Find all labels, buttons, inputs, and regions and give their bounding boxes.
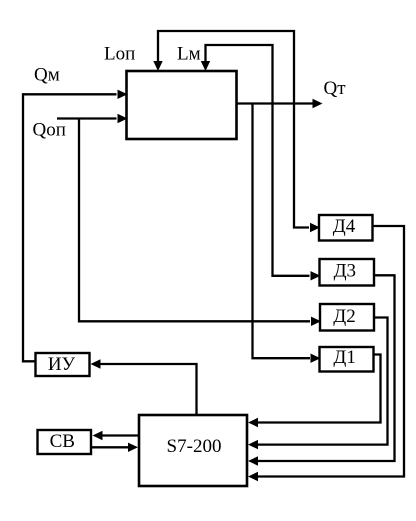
arrowhead Д3 line into S7-200 [248,456,258,465]
svg-text:СВ: СВ [50,431,75,452]
arrowhead into СВ [93,431,103,440]
wire S7-200 to СВ [101,434,139,436]
arrowhead Qоп into process block [118,114,128,123]
wire Qт tap down to Д1 [253,104,311,359]
wire Lоп: top feed into process block and tap to Д4 [158,31,309,228]
wire Qм: from ИУ up and into process block [23,94,117,361]
arrowhead Lм into process block [201,61,210,71]
svg-text:Д3: Д3 [334,261,356,282]
arrowhead Qм into process block [118,90,128,99]
wire Д2 output to S7-200 [257,318,388,445]
block ИУ [36,353,90,376]
process block (main object) [127,71,237,139]
block S7-200 [139,415,247,486]
arrowhead into ИУ [91,359,101,368]
block Д3 [320,259,375,286]
block Д4 [319,215,373,241]
wire Д3 output to S7-200 [257,275,395,461]
svg-text:Д2: Д2 [333,306,355,327]
svg-text:Qм: Qм [34,65,60,86]
arrowhead into Д2 [311,317,321,326]
svg-text:ИУ: ИУ [48,354,76,375]
svg-text:Д4: Д4 [333,216,356,237]
block Д1 [320,347,374,372]
svg-text:Qоп: Qоп [33,120,66,141]
arrowhead Qт output [313,99,323,108]
arrowhead СВ line into S7-200 [128,443,138,452]
wire Д1 output to S7-200 [257,355,381,423]
svg-text:Lм: Lм [177,44,201,65]
wire Д4 output to S7-200 [257,226,405,477]
wire Lм: top feed into process block and tap to Д3 [206,45,310,276]
wire S7-200 to ИУ [99,364,197,415]
wire Qоп branch down to Д2 [79,119,310,322]
arrowhead Д2 line into S7-200 [248,440,258,449]
svg-text:Qт: Qт [324,78,347,99]
arrowhead into Д1 [311,354,321,363]
svg-text:Lоп: Lоп [104,44,135,65]
arrowhead into Д3 [311,271,321,280]
wire СВ to S7-200 [91,446,130,448]
arrowhead Д1 line into S7-200 [248,418,258,427]
svg-text:S7-200: S7-200 [167,436,222,457]
arrowhead into Д4 [310,223,320,232]
block Д2 [320,304,374,331]
arrowhead Lоп into process block [153,61,162,71]
block СВ [38,430,92,454]
svg-text:Д1: Д1 [333,347,355,368]
arrowhead Д4 line into S7-200 [248,472,258,481]
wire Qт: out of process block [237,102,313,104]
wire Qоп: into process block [57,117,117,119]
